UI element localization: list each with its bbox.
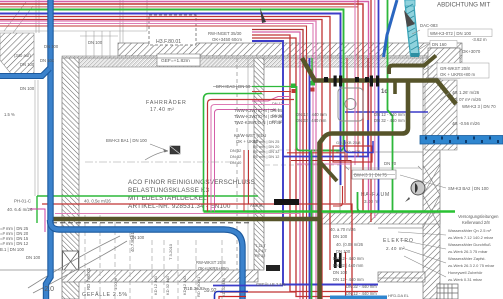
- svg-text:39.92: 39.92: [204, 288, 217, 294]
- pipe top bundle: pink line 1: [0, 4, 363, 211]
- pipe olive: top run: [302, 58, 456, 104]
- svg-text:Wasserzähler Qn 2.5 m³: Wasserzähler Qn 2.5 m³: [448, 228, 492, 233]
- svg-text:ABDICHTUNG MIT: ABDICHTUNG MIT: [437, 2, 491, 9]
- texts: DN labels center: [296, 112, 405, 123]
- svg-text:KD 12 440: KD 12 440: [153, 275, 158, 295]
- svg-text:DN 100: DN 100: [336, 249, 351, 254]
- svg-text:Honeywell Zubehör: Honeywell Zubehör: [448, 270, 483, 275]
- svg-text:RW-INGET 35/30: RW-INGET 35/30: [208, 31, 242, 36]
- red corner riser HA-RAUM: [333, 186, 343, 206]
- svg-text:BW-K3 3 | DN 75: BW-K3 3 | DN 75: [354, 173, 387, 178]
- svg-text:H3.F.80.01: H3.F.80.01: [156, 39, 181, 45]
- black label bar 2: [266, 265, 280, 271]
- pipe green: long horizontal bright: [204, 210, 456, 212]
- svg-text:GEF=+1.82m: GEF=+1.82m: [161, 58, 190, 64]
- pipe center: pink horizontal: [296, 163, 352, 165]
- svg-text:40. -0.56 m/26: 40. -0.56 m/26: [452, 121, 480, 126]
- pipe center: darkred vertical x368: [367, 58, 369, 120]
- tiny row texts: [272, 102, 283, 124]
- svg-text:DN 100: DN 100: [20, 62, 35, 67]
- svg-text:1.20 m: 1.20 m: [113, 277, 118, 290]
- svg-text:ELEKTRO: ELEKTRO: [383, 238, 414, 244]
- svg-text:HFD-DA EL: HFD-DA EL: [388, 293, 410, 298]
- svg-text:DN 100: DN 100: [44, 44, 59, 49]
- svg-text:DN 32 - 440 mm: DN 32 - 440 mm: [346, 284, 377, 289]
- svg-text:Versorgungsleitungen: Versorgungsleitungen: [458, 214, 499, 219]
- bottom blue band: [330, 296, 387, 299]
- pipe green riser with corner: [297, 86, 312, 299]
- svg-text:OK+3070: OK+3070: [462, 49, 481, 54]
- svg-text:OK+UKRS+80m: OK+UKRS+80m: [198, 266, 229, 271]
- svg-text:SM-K3 BA2 | DN 100: SM-K3 BA2 | DN 100: [448, 186, 489, 191]
- door sill label GEF box: [157, 54, 200, 66]
- texts: legend bottom right: [448, 228, 495, 282]
- svg-text:40. 6.4i m/26: 40. 6.4i m/26: [7, 207, 33, 212]
- svg-text:ACO FINOR REINIGUNGSVERSCHLUSS: ACO FINOR REINIGUNGSVERSCHLUSS: [128, 179, 255, 186]
- red risers DN32: [243, 150, 245, 211]
- svg-text:DN 32 | 440 mm: DN 32 | 440 mm: [296, 118, 327, 123]
- svg-text:-3.62 m: -3.62 m: [472, 37, 487, 42]
- pipe top bundle: red line 6: [252, 30, 303, 299]
- svg-text:DN 100: DN 100: [20, 86, 35, 91]
- svg-text:zu-Werk 26.3 75 mbar: zu-Werk 26.3 75 mbar: [448, 249, 488, 254]
- pipe top bundle: pink line 2: [0, 21, 316, 299]
- dimension dashed verticals bottom center: [85, 150, 340, 299]
- pipe olive: main vertical with elbow: [320, 82, 409, 299]
- column X-box in left wall: [63, 251, 79, 272]
- svg-text:DN 12 - 440 mm: DN 12 - 440 mm: [333, 277, 364, 282]
- svg-text:OK+3450 60cm: OK+3450 60cm: [212, 37, 242, 42]
- wall top-left wedge: [0, 33, 34, 75]
- wall right vertical: [423, 58, 440, 299]
- svg-text:TWW-K3WT/D-N | DN 25: TWW-K3WT/D-N | DN 25: [234, 108, 283, 113]
- pipe red: left horizontal with corner: [42, 204, 352, 299]
- svg-text:zu-Werk 26.3 2.0 75 mbar: zu-Werk 26.3 2.0 75 mbar: [448, 263, 495, 268]
- pipe red bottom extension left: [220, 291, 296, 293]
- pipe top bundle: red line 3: [0, 17, 330, 271]
- svg-text:DN 32: DN 32: [230, 154, 242, 159]
- pipe indigo riser x309.5: [309, 58, 311, 299]
- pipe right: red vertical full: [370, 0, 372, 222]
- svg-text:OK + UKRS+80 m: OK + UKRS+80 m: [440, 72, 476, 77]
- svg-text:-2.0: -2.0: [42, 286, 54, 293]
- svg-text:40. (0.08 m/26: 40. (0.08 m/26: [336, 242, 364, 247]
- black dashed line along olive: [52, 222, 250, 224]
- svg-text:PE mm | DN 25: PE mm | DN 25: [253, 140, 279, 144]
- svg-text:RD 7.80.61: RD 7.80.61: [196, 276, 201, 297]
- pipe blue: top right diagonal: [384, 0, 398, 57]
- black H valve symbol: [334, 253, 342, 268]
- svg-text:FAHRRÄDER: FAHRRÄDER: [146, 99, 187, 106]
- svg-text:40.7.80.61: 40.7.80.61: [130, 232, 135, 252]
- pipe top bundle: red line 1: [0, 2, 369, 212]
- pipe top bundle: red line 5: [0, 24, 313, 219]
- svg-text:Kellerwand 2/8: Kellerwand 2/8: [462, 220, 490, 225]
- pipe center: red horizontal 1: [287, 153, 345, 203]
- svg-text:DN 12 - 440 mm: DN 12 - 440 mm: [333, 256, 364, 261]
- black label bar WM-K3: [274, 199, 299, 205]
- svg-text:40. 0.5e m/26: 40. 0.5e m/26: [84, 199, 111, 204]
- texts: ACO block: [128, 179, 255, 210]
- svg-text:PH-01-C: PH-01-C: [14, 199, 31, 204]
- texts: small nested box labels: [234, 108, 283, 125]
- pipe center: red vertical x358: [357, 0, 359, 157]
- svg-text:BELASTUNGSKLASSE K3: BELASTUNGSKLASSE K3: [128, 187, 209, 194]
- pipe cyan: insulated riser: [405, 0, 419, 57]
- svg-text:PE mm | DN 32: PE mm | DN 32: [253, 150, 279, 154]
- svg-text:DN 12 - 440 mm: DN 12 - 440 mm: [346, 291, 377, 296]
- pipe top bundle: green line: [0, 10, 344, 151]
- legend box corner bottom center: [215, 292, 249, 299]
- svg-text:WM-K3-072 | DN 100: WM-K3-072 | DN 100: [430, 31, 472, 36]
- texts: right DN column: [330, 227, 377, 296]
- svg-text:R1B.36.92: R1B.36.92: [184, 286, 205, 291]
- leader arcs bottom-left: [28, 151, 168, 293]
- svg-text:4 0 4 T: 4 0 4 T: [255, 249, 267, 253]
- svg-text:Wasserzähler Durchfluß: Wasserzähler Durchfluß: [448, 242, 491, 247]
- svg-text:zu-Werk 0.31 mbar: zu-Werk 0.31 mbar: [448, 277, 483, 282]
- pipe green box: vertical left edge: [204, 94, 263, 212]
- pipe olive: long bottom horizontal: [51, 217, 318, 222]
- drainage channel blue band: [420, 136, 503, 145]
- pipe right: green vertical full: [388, 0, 393, 212]
- svg-text:Wasserzähler Zapfst.: Wasserzähler Zapfst.: [448, 256, 486, 261]
- wall interior vertical: [254, 58, 264, 270]
- leader lines to legend: [398, 232, 446, 277]
- red box around fitting text: [333, 146, 372, 162]
- svg-text:GEFÄLLE 2.5%: GEFÄLLE 2.5%: [82, 291, 128, 298]
- pipe center: red vertical x347: [346, 58, 348, 161]
- wall top-right corner block: [428, 48, 460, 78]
- wall right wide block: [425, 80, 457, 150]
- svg-text:=# mm | DN 12: =# mm | DN 12: [0, 241, 29, 246]
- red end square: [311, 88, 315, 92]
- pipe green: left horizontal: [37, 195, 258, 197]
- pipe section circle symbol: [411, 181, 425, 195]
- svg-text:DN 32 - 440 mm: DN 32 - 440 mm: [374, 118, 405, 123]
- pipe top bundle: red line 2: [0, 7, 358, 157]
- centerline dashdot: [85, 161, 237, 163]
- pipe green: left drop: [36, 196, 38, 223]
- pipe center: red horizontal 2: [291, 161, 351, 212]
- gray arrow triangle top right: [404, 10, 415, 27]
- svg-text:DN 160: DN 160: [432, 42, 447, 47]
- texts: left small: [4, 40, 103, 117]
- pipe cascade: pink line 3: [252, 32, 300, 299]
- pipe olive: branch diagonal: [320, 162, 337, 181]
- svg-text:GR-DKB 20/8: GR-DKB 20/8: [336, 140, 361, 145]
- green end square: [311, 81, 316, 86]
- pipe indigo bottom extension left: [213, 285, 283, 287]
- pipe blue thick: main left loop: [46, 0, 51, 299]
- leader lines top right: [400, 30, 450, 188]
- svg-text:DN 10x: DN 10x: [40, 58, 55, 63]
- pipe top bundle: indigo line: [0, 14, 341, 186]
- wall left vertical: [62, 58, 79, 299]
- pipe center: indigo horizontal DN: [283, 120, 368, 157]
- svg-text:DN 70: DN 70: [384, 161, 397, 166]
- dimension chain top-left: [0, 0, 147, 196]
- pipe pink box: inner line 2: [215, 110, 277, 212]
- pipe pink: left horizontal: [55, 213, 300, 215]
- pipe green: wc vertical: [311, 58, 313, 81]
- svg-text:DN 100: DN 100: [88, 40, 103, 45]
- pipe olive: upper short run: [389, 56, 436, 75]
- svg-text:zu-Werk 7.12 140.2 mbar: zu-Werk 7.12 140.2 mbar: [448, 235, 494, 240]
- svg-text:KD 12 440: KD 12 440: [182, 275, 187, 295]
- svg-text:PE mm | DN 12: PE mm | DN 12: [253, 155, 279, 159]
- label box BW-K3: [352, 170, 396, 179]
- texts: left bottom DN stack: [0, 226, 145, 260]
- dimension line HA-RAUM: [345, 166, 422, 170]
- pipe blue thick: branch to right: [50, 220, 243, 299]
- top-left diagonal leaders: [4, 2, 33, 33]
- svg-text:DN 12 - 440 mm: DN 12 - 440 mm: [374, 112, 405, 117]
- svg-text:2.40 m²: 2.40 m²: [386, 246, 405, 251]
- pipe red box: inner line: [208, 100, 295, 212]
- pipe magenta: left vertical: [30, 209, 45, 232]
- pipe cascade: indigo line 2: [252, 41, 378, 285]
- short green feed with square: [252, 86, 291, 88]
- svg-text:BW-K3 BA1 | DN 100: BW-K3 BA1 | DN 100: [106, 138, 148, 143]
- svg-text:ANKIK: ANKIK: [250, 203, 263, 208]
- pipe right: indigo vertical full: [378, 0, 380, 211]
- dark arrow left of cascade: [260, 8, 266, 23]
- svg-text:T 12 T: T 12 T: [255, 244, 267, 248]
- wc cistern fixture: [338, 88, 363, 121]
- wall bottom-right band: [378, 272, 425, 282]
- svg-text:B.1 | DN 100: B.1 | DN 100: [0, 247, 25, 252]
- svg-text:RD 7.80.01: RD 7.80.01: [86, 267, 91, 290]
- texts: top middle: [208, 31, 294, 89]
- wall band below HA-RAUM: [322, 213, 440, 224]
- pipe pink box: inner line 1: [211, 105, 290, 212]
- svg-text:DN 40: DN 40: [230, 160, 242, 165]
- svg-text:(340 auf): (340 auf): [14, 53, 31, 58]
- svg-text:DN 12 - 440 mm: DN 12 - 440 mm: [296, 112, 327, 117]
- svg-text:1c: 1c: [381, 89, 388, 95]
- tiny cluster texts: [253, 140, 279, 258]
- pen mark: [405, 197, 410, 202]
- pipe blue thick: left feeder: [0, 69, 50, 77]
- svg-text:GEFÄLLE 2.5%: GEFÄLLE 2.5%: [256, 282, 286, 287]
- door opening H3.F.80.01: [149, 15, 196, 45]
- room boundary gray lines: [0, 0, 423, 278]
- svg-text:DN 100: DN 100: [26, 255, 41, 260]
- svg-text:TWW-K3WT/D-N | DN 25: TWW-K3WT/D-N | DN 25: [234, 114, 283, 119]
- svg-text:KD 32 440: KD 32 440: [165, 275, 170, 295]
- pink zigzag: [252, 97, 291, 102]
- svg-text:DN 100: DN 100: [333, 270, 348, 275]
- svg-text:PE mm | DN 20: PE mm | DN 20: [253, 145, 279, 149]
- pipe center: pink vertical x355: [354, 0, 356, 165]
- pipe cascade: red line 8: [252, 38, 345, 297]
- pipe top bundle: red line 4: [0, 20, 322, 299]
- svg-text:TWZ-K3WT/D-N | DN 32: TWZ-K3WT/D-N | DN 32: [234, 120, 282, 125]
- svg-text:HA-RAUM: HA-RAUM: [361, 192, 390, 198]
- svg-text:T 3-2010: T 3-2010: [168, 243, 173, 260]
- svg-text:DAC-083: DAC-083: [420, 23, 438, 28]
- short red feed with square: [252, 91, 291, 93]
- svg-text:1.5 %: 1.5 %: [4, 112, 15, 117]
- svg-text:K3/W-WST (SLU: K3/W-WST (SLU: [234, 133, 266, 138]
- valve symbols: [324, 76, 379, 87]
- right wall X bracing: [423, 165, 440, 228]
- svg-text:GR-WKST 20/8: GR-WKST 20/8: [440, 66, 470, 71]
- floor gully symbol: [170, 146, 180, 154]
- svg-text:DN 32: DN 32: [230, 148, 242, 153]
- svg-text:KD 32 440: KD 32 440: [221, 277, 226, 297]
- pipe center: indigo label line: [345, 111, 428, 113]
- stair ladder symbol bottom right: [437, 284, 458, 299]
- svg-text:PE 32: PE 32: [255, 254, 265, 258]
- green corner riser HA-RAUM: [358, 192, 362, 212]
- pipe olive: left hook: [393, 82, 397, 94]
- gully leader arrow: [150, 144, 168, 151]
- svg-text:DN 100: DN 100: [333, 234, 348, 239]
- svg-text:DN 32 | 440 mm: DN 32 | 440 mm: [333, 263, 364, 268]
- pipe cascade: red line 7: [252, 35, 378, 292]
- wall bottom band: [62, 270, 258, 282]
- svg-text:40. 1.26' m/26: 40. 1.26' m/26: [452, 90, 480, 95]
- svg-text:RW-WKST 20/8: RW-WKST 20/8: [196, 260, 226, 265]
- wall top band (hatched): [62, 43, 462, 67]
- svg-text:40. a.70 m/26: 40. a.70 m/26: [330, 227, 356, 232]
- svg-text:WM-K3 3 | DN 70: WM-K3 3 | DN 70: [462, 104, 496, 109]
- svg-text:17.40 m²: 17.40 m²: [150, 107, 175, 113]
